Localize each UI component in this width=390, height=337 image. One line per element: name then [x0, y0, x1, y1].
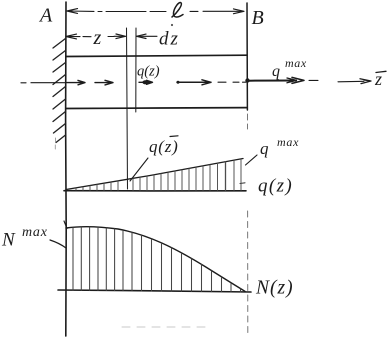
load arrow 1: [67, 80, 85, 84]
N curve start tick: [64, 221, 67, 229]
strip line left (x=127, through bar and q-diagram): [127, 28, 128, 189]
svg-text:q(z): q(z): [258, 176, 293, 197]
load arrow 2: [95, 80, 113, 85]
q-diagram baseline: [64, 190, 246, 192]
arrow q max at free end: [249, 77, 318, 83]
faint bottom dashes: [122, 326, 212, 328]
svg-text:q(z): q(z): [149, 137, 179, 156]
svg-text:A: A: [38, 5, 53, 27]
stray dash near triangle tip: [240, 182, 245, 185]
q-diagram slope line: [66, 159, 243, 190]
svg-text:N(z): N(z): [255, 278, 294, 299]
bar outline: [66, 55, 247, 108]
svg-text:max: max: [285, 56, 307, 70]
svg-text:B: B: [252, 7, 264, 29]
svg-text:max: max: [22, 225, 48, 240]
dimension dz: [137, 34, 158, 38]
load arrow q(z)dz on strip: [139, 80, 153, 84]
dimension line l (arrows + dash-dot): [67, 9, 244, 14]
svg-text:z: z: [93, 27, 102, 49]
label l (script ell): [172, 3, 183, 17]
node at B: [245, 78, 249, 82]
wall line (left reference line x=66): [65, 2, 68, 336]
faint pencil dashes left of wall: [54, 138, 56, 149]
dimension z: [66, 34, 126, 39]
wall hatching: [53, 39, 66, 143]
strip line right (x=136): [135, 28, 137, 112]
axis dashes to node: [218, 81, 246, 83]
bar axis center line (left of wall): [21, 82, 66, 84]
label q max (middle) with leader: [246, 155, 258, 165]
stray mark under l: [171, 24, 173, 26]
dashed line below B (x=248): [247, 114, 249, 129]
N-diagram baseline: [58, 290, 251, 292]
bar right edge / B extension line: [246, 3, 248, 110]
svg-text:q: q: [272, 63, 280, 80]
z axis arrow: [338, 79, 371, 84]
svg-text:q(z): q(z): [137, 64, 160, 80]
svg-text:q: q: [260, 139, 269, 158]
load arrow 3: [177, 80, 211, 85]
svg-text:dz: dz: [159, 29, 180, 50]
svg-text:N: N: [1, 230, 16, 251]
N-diagram hatching: [73, 227, 241, 292]
svg-text:max: max: [277, 135, 299, 149]
q-diagram hatching: [76, 159, 241, 190]
N curve: [66, 227, 245, 292]
